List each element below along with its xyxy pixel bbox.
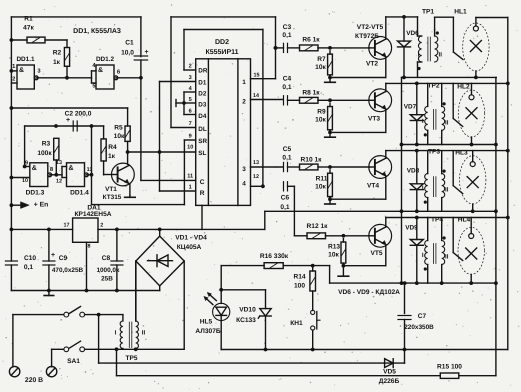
svg-text:DD2: DD2 bbox=[215, 39, 229, 46]
svg-text:VD8: VD8 bbox=[407, 168, 420, 175]
svg-text:R15 100: R15 100 bbox=[437, 364, 462, 371]
svg-text:R4: R4 bbox=[108, 144, 117, 151]
svg-text:II: II bbox=[142, 330, 146, 337]
svg-text:+: + bbox=[144, 49, 148, 56]
svg-text:10к: 10к bbox=[114, 133, 125, 140]
svg-text:15: 15 bbox=[254, 73, 260, 79]
svg-text:R9: R9 bbox=[317, 109, 326, 116]
svg-text:DR: DR bbox=[198, 68, 208, 75]
svg-text:C9: C9 bbox=[59, 255, 68, 262]
svg-text:47к: 47к bbox=[23, 25, 34, 32]
svg-text:КС133: КС133 bbox=[236, 317, 256, 324]
svg-text:VD9: VD9 bbox=[405, 225, 418, 232]
svg-text:12: 12 bbox=[56, 179, 62, 185]
svg-text:4: 4 bbox=[242, 181, 246, 188]
svg-text:R13: R13 bbox=[328, 244, 340, 251]
svg-text:HL3: HL3 bbox=[455, 150, 468, 157]
svg-text:25В: 25В bbox=[101, 276, 113, 283]
svg-text:3: 3 bbox=[242, 166, 246, 173]
svg-text:D2: D2 bbox=[198, 91, 207, 98]
svg-text:C5: C5 bbox=[283, 146, 292, 153]
svg-text:R12 1к: R12 1к bbox=[307, 223, 329, 230]
svg-text:10: 10 bbox=[22, 178, 28, 184]
svg-text:R10 1к: R10 1к bbox=[301, 157, 323, 164]
svg-text:II: II bbox=[445, 254, 449, 261]
svg-text:2: 2 bbox=[12, 76, 15, 83]
svg-text:I: I bbox=[422, 118, 424, 125]
svg-text:9: 9 bbox=[189, 134, 192, 140]
svg-text:10: 10 bbox=[187, 145, 193, 151]
svg-text:6: 6 bbox=[189, 109, 192, 115]
svg-text:8: 8 bbox=[88, 244, 91, 250]
svg-text:SL: SL bbox=[198, 150, 206, 157]
svg-text:DD1.2: DD1.2 bbox=[96, 56, 115, 63]
svg-text:VD6 - VD9 - КД102А: VD6 - VD9 - КД102А bbox=[338, 289, 400, 296]
svg-text:7: 7 bbox=[189, 121, 192, 127]
svg-text:+: + bbox=[66, 117, 70, 124]
svg-text:TP4: TP4 bbox=[431, 216, 443, 223]
svg-text:I: I bbox=[418, 52, 420, 59]
svg-text:VD10: VD10 bbox=[239, 307, 256, 314]
svg-text:2: 2 bbox=[189, 64, 192, 70]
svg-text:D3: D3 bbox=[198, 102, 207, 109]
svg-text:VT3: VT3 bbox=[368, 116, 380, 123]
svg-text:TP2: TP2 bbox=[427, 83, 439, 90]
svg-text:R7: R7 bbox=[317, 56, 326, 63]
svg-text:DL: DL bbox=[198, 126, 207, 133]
svg-text:R6 1к: R6 1к bbox=[302, 37, 320, 44]
svg-text:&: & bbox=[19, 67, 24, 74]
svg-text:HL1: HL1 bbox=[454, 9, 467, 16]
svg-text:1: 1 bbox=[189, 185, 192, 191]
svg-text:R3: R3 bbox=[42, 141, 51, 148]
svg-text:II: II bbox=[438, 52, 442, 59]
svg-text:1к: 1к bbox=[108, 153, 116, 160]
svg-text:1к: 1к bbox=[53, 59, 61, 66]
svg-text:VT1: VT1 bbox=[105, 186, 117, 193]
svg-text:C7: C7 bbox=[418, 313, 427, 320]
svg-text:DD1, К555ЛА3: DD1, К555ЛА3 bbox=[73, 28, 121, 35]
svg-text:SA1: SA1 bbox=[67, 358, 80, 365]
svg-text:5: 5 bbox=[189, 97, 192, 103]
svg-text:&: & bbox=[68, 165, 73, 172]
svg-text:10к: 10к bbox=[328, 252, 339, 259]
svg-text:0,1: 0,1 bbox=[24, 264, 33, 271]
svg-text:0,1: 0,1 bbox=[280, 204, 289, 211]
svg-text:DD1.4: DD1.4 bbox=[70, 190, 89, 197]
svg-text:&: & bbox=[32, 165, 37, 172]
svg-text:HL4: HL4 bbox=[458, 216, 471, 223]
svg-text:100к: 100к bbox=[37, 150, 52, 157]
svg-text:C1: C1 bbox=[125, 40, 134, 47]
svg-text:13: 13 bbox=[56, 160, 62, 166]
svg-text:КР142ЕН5А: КР142ЕН5А bbox=[74, 211, 111, 218]
svg-text:C: C bbox=[200, 179, 205, 186]
svg-text:R8 1к: R8 1к bbox=[302, 90, 320, 97]
svg-text:2: 2 bbox=[100, 223, 103, 229]
svg-text:VD5: VD5 bbox=[383, 369, 396, 376]
svg-text:10к: 10к bbox=[315, 117, 326, 124]
svg-text:SR: SR bbox=[198, 138, 207, 145]
svg-text:12: 12 bbox=[253, 174, 259, 180]
svg-text:I: I bbox=[422, 252, 424, 259]
svg-text:14: 14 bbox=[253, 93, 259, 99]
svg-text:АЛ307Б: АЛ307Б bbox=[195, 328, 220, 335]
svg-text:VT4: VT4 bbox=[367, 183, 379, 190]
svg-text:13: 13 bbox=[253, 160, 259, 166]
svg-text:Д226Б: Д226Б bbox=[379, 378, 400, 385]
svg-text:10к: 10к bbox=[315, 184, 326, 191]
svg-text:TP1: TP1 bbox=[422, 9, 434, 16]
svg-text:ТР5: ТР5 bbox=[125, 355, 137, 362]
svg-text:1000,0х: 1000,0х bbox=[96, 267, 120, 274]
svg-text:TP3: TP3 bbox=[428, 149, 440, 156]
svg-text:II: II bbox=[445, 187, 449, 194]
svg-text:C4: C4 bbox=[283, 76, 292, 83]
svg-text:I: I bbox=[115, 330, 117, 337]
svg-text:470,0х25В: 470,0х25В bbox=[52, 267, 84, 274]
svg-text:R16 330к: R16 330к bbox=[260, 253, 289, 260]
svg-text:10к: 10к bbox=[315, 64, 326, 71]
svg-text:R14: R14 bbox=[293, 274, 305, 281]
svg-text:R5: R5 bbox=[114, 125, 123, 132]
svg-text:VD7: VD7 bbox=[404, 104, 417, 111]
svg-text:I: I bbox=[422, 185, 424, 192]
svg-text:1: 1 bbox=[242, 79, 246, 86]
svg-text:VD1 - VD4: VD1 - VD4 bbox=[175, 235, 207, 242]
svg-text:VT2: VT2 bbox=[366, 61, 378, 68]
svg-text:0,1: 0,1 bbox=[282, 32, 291, 39]
svg-text:C10: C10 bbox=[24, 255, 36, 262]
svg-text:100: 100 bbox=[294, 283, 305, 290]
svg-text:220 В: 220 В bbox=[25, 377, 43, 384]
svg-text:VT2-VT5: VT2-VT5 bbox=[357, 24, 384, 31]
svg-text:+ Еn: + Еn bbox=[34, 202, 49, 209]
svg-text:D1: D1 bbox=[198, 80, 207, 87]
svg-text:&: & bbox=[98, 67, 103, 74]
svg-text:КТ972Б: КТ972Б bbox=[355, 33, 379, 40]
svg-text:C8: C8 bbox=[102, 255, 111, 262]
svg-text:R1: R1 bbox=[24, 16, 33, 23]
svg-text:D4: D4 bbox=[198, 113, 207, 120]
svg-text:К555ИР11: К555ИР11 bbox=[205, 49, 238, 56]
svg-text:0,1: 0,1 bbox=[282, 84, 291, 91]
svg-text:10,0: 10,0 bbox=[121, 50, 134, 57]
svg-text:R: R bbox=[200, 190, 205, 197]
svg-text:C3: C3 bbox=[283, 24, 292, 31]
svg-text:17: 17 bbox=[64, 223, 70, 229]
svg-text:DD1.1: DD1.1 bbox=[16, 56, 35, 63]
svg-text:11: 11 bbox=[187, 174, 193, 180]
svg-text:КН1: КН1 bbox=[290, 320, 303, 327]
svg-text:3: 3 bbox=[189, 75, 192, 81]
svg-text:DD1.3: DD1.3 bbox=[26, 190, 45, 197]
svg-text:R11: R11 bbox=[316, 176, 328, 183]
svg-text:КЦ405А: КЦ405А bbox=[177, 244, 202, 251]
svg-text:0,1: 0,1 bbox=[282, 155, 291, 162]
svg-text:VT5: VT5 bbox=[370, 250, 382, 257]
svg-text:+: + bbox=[51, 252, 55, 259]
svg-text:220х350В: 220х350В bbox=[404, 324, 434, 331]
svg-text:HL5: HL5 bbox=[200, 318, 213, 325]
svg-text:R2: R2 bbox=[53, 50, 62, 57]
svg-text:КТ315: КТ315 bbox=[103, 194, 122, 201]
svg-text:HL2: HL2 bbox=[457, 84, 470, 91]
svg-text:II: II bbox=[445, 119, 449, 126]
svg-text:2: 2 bbox=[242, 99, 246, 106]
svg-text:C6: C6 bbox=[281, 195, 290, 202]
